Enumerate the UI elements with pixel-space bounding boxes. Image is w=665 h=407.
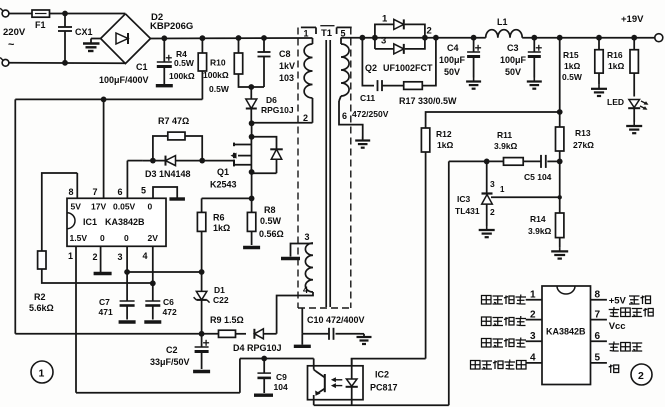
svg-text:2: 2 <box>427 26 432 37</box>
transformer T1 core <box>325 40 327 307</box>
svg-text:C1: C1 <box>136 62 148 72</box>
pinout pin 4 stub <box>526 362 542 364</box>
svg-text:8: 8 <box>595 290 601 301</box>
node C8 top <box>261 35 267 41</box>
node TL431 top junction <box>484 159 490 165</box>
svg-text:C2: C2 <box>166 345 178 355</box>
resistor R9 1.5 <box>219 330 236 337</box>
svg-text:IC3: IC3 <box>457 194 471 204</box>
svg-text:1kΩ: 1kΩ <box>437 140 453 150</box>
node R4 top <box>200 35 206 41</box>
transistor inside PC817 <box>313 359 315 370</box>
label pin6 output terminal (Chinese) <box>609 342 620 352</box>
svg-text:3: 3 <box>530 331 536 342</box>
ground bar at C2 <box>193 370 210 373</box>
svg-text:1: 1 <box>530 290 536 301</box>
node Vcc pin7 junction <box>101 97 107 103</box>
node R10 top <box>236 35 242 41</box>
node Q1 drain <box>249 120 255 126</box>
ground at secondary pin 6 <box>362 137 364 141</box>
diode Q2 upper (pin 1) <box>375 24 394 37</box>
pinout pin 3 stub <box>526 340 542 342</box>
svg-text:0.5W: 0.5W <box>174 58 195 68</box>
ground bar at C7 <box>119 320 136 323</box>
pin 4 wire and number <box>152 246 154 283</box>
svg-text:C9: C9 <box>276 372 287 382</box>
svg-text:6: 6 <box>342 111 347 121</box>
svg-text:100μF: 100μF <box>439 55 466 65</box>
transformer T1 bracket pin 5 <box>337 26 352 28</box>
svg-text:0.5W: 0.5W <box>209 84 230 94</box>
node C3 junction <box>531 35 537 41</box>
wire rectifier to L1 <box>436 37 486 39</box>
pinout pin 7 stub <box>591 319 607 321</box>
capacitor C7 471 filter <box>126 272 128 301</box>
resistor R13 27k <box>556 127 564 151</box>
svg-text:2: 2 <box>303 113 308 123</box>
pin 2 wire and number <box>100 246 102 272</box>
svg-text:R8: R8 <box>264 205 276 215</box>
svg-text:K2543: K2543 <box>210 180 237 190</box>
wire AC bottom <box>9 62 125 64</box>
svg-text:R13: R13 <box>575 128 591 138</box>
svg-text:R17 330/0.5W: R17 330/0.5W <box>399 96 457 106</box>
svg-text:3.9kΩ: 3.9kΩ <box>494 141 518 151</box>
wire source node to R6 <box>202 197 252 199</box>
svg-text:C4: C4 <box>447 43 459 53</box>
svg-text:R14: R14 <box>530 214 546 224</box>
wire bottom secondary rail <box>314 404 449 406</box>
svg-text:5: 5 <box>141 186 146 196</box>
ground bar at pin 2 <box>94 272 112 275</box>
op-amp KA3842B pinout diagram <box>542 286 591 385</box>
node Q2 output <box>422 35 428 41</box>
svg-text:3: 3 <box>118 252 123 262</box>
svg-text:R11: R11 <box>497 130 512 140</box>
wire pin1 comp bottom <box>76 392 240 394</box>
svg-text:Q2: Q2 <box>365 63 377 73</box>
node R15 top <box>596 35 602 41</box>
svg-text:472: 472 <box>163 307 177 317</box>
svg-text:0: 0 <box>148 202 153 212</box>
svg-text:4: 4 <box>530 353 536 364</box>
svg-text:2: 2 <box>490 207 495 217</box>
winding secondary 5-6 <box>340 38 342 45</box>
svg-text:50V: 50V <box>505 67 521 77</box>
svg-text:1: 1 <box>39 368 45 380</box>
svg-text:KA3842B: KA3842B <box>546 327 586 337</box>
svg-text:1: 1 <box>68 251 73 261</box>
svg-text:+5V: +5V <box>609 296 627 307</box>
svg-text:L1: L1 <box>497 17 508 27</box>
node pin3 junction <box>124 269 130 275</box>
svg-text:4: 4 <box>143 251 148 261</box>
label pin1 output compensation (Chinese) <box>482 296 492 305</box>
resistor R14 3.9k <box>556 213 564 238</box>
svg-text:104: 104 <box>274 382 288 392</box>
transistor Q1 K2543 MOSFET <box>233 143 235 147</box>
ground at LED <box>633 108 635 122</box>
LED inside PC817 <box>351 359 353 380</box>
wire secondary pin5 to rectifier <box>341 37 436 39</box>
ground bar at C6 <box>144 320 161 323</box>
node C2/D1 junction <box>199 331 205 337</box>
node AC terminal top <box>2 10 9 17</box>
svg-text:R6: R6 <box>213 213 225 223</box>
ground bar at C9 <box>254 394 273 397</box>
diode D1 C22 zener <box>201 272 203 291</box>
capacitor C8 1kV 103 <box>263 38 265 52</box>
bridge rectifier D2 <box>101 14 151 64</box>
svg-text:7: 7 <box>93 187 98 197</box>
capacitor C1 100uF/400V <box>163 38 165 62</box>
svg-text:0.56Ω: 0.56Ω <box>259 229 284 239</box>
node R13 branch top <box>557 35 563 41</box>
svg-text:R15: R15 <box>563 50 579 60</box>
svg-text:3: 3 <box>305 232 310 242</box>
ground at bridge left vertex <box>91 38 101 40</box>
node C9 junction <box>261 356 267 362</box>
svg-text:C10 472/400V: C10 472/400V <box>307 315 365 325</box>
svg-text:D4 RPG10J: D4 RPG10J <box>233 343 282 353</box>
svg-text:D3 1N4148: D3 1N4148 <box>145 169 191 179</box>
svg-text:2: 2 <box>638 370 644 382</box>
transformer T1 dashed box left <box>297 28 299 309</box>
diode D3 1N4148 <box>127 160 142 162</box>
wire primary pin2 to drain <box>252 122 313 124</box>
pinout pin 5 stub <box>591 362 607 364</box>
wire R12 to opto LED anode <box>351 358 426 360</box>
node C4 junction <box>471 35 477 41</box>
wire opto emitter to bottom rail <box>313 400 315 406</box>
capacitor CX1 <box>64 14 66 28</box>
svg-text:2: 2 <box>93 252 98 262</box>
ground at C10 <box>360 333 364 335</box>
node Q2 input junction 2 <box>372 35 378 41</box>
node Q1 source <box>249 169 255 175</box>
node C1 junction <box>161 35 167 41</box>
svg-text:LED: LED <box>607 97 624 107</box>
capacitor C9 104 <box>263 359 265 374</box>
label pin5 ground (Chinese) <box>609 365 619 374</box>
wire comp riser <box>239 359 241 393</box>
svg-text:0: 0 <box>124 233 129 243</box>
wire Vcc rail down left side <box>14 99 16 333</box>
capacitor C4 100uF 50V <box>473 38 475 52</box>
svg-text:T1: T1 <box>321 28 333 39</box>
label pin4 timing element (Chinese) <box>471 361 481 370</box>
svg-text:0: 0 <box>100 233 105 243</box>
svg-text:Q1: Q1 <box>217 167 229 177</box>
resistor R6 1k <box>201 198 203 212</box>
node D6 top junction <box>248 84 254 90</box>
svg-text:103: 103 <box>279 73 294 83</box>
node CX1 top junction <box>62 11 68 17</box>
svg-text:7: 7 <box>595 310 601 321</box>
node circled 1 <box>31 361 53 383</box>
capacitor C5 104 <box>540 155 542 168</box>
resistor R17 330/0.5W <box>404 82 423 90</box>
wire TL431 node down to bottom rail <box>448 161 450 405</box>
diode D6 RPG10J <box>250 87 252 99</box>
ground at R14 <box>559 247 561 251</box>
svg-text:C11: C11 <box>360 93 375 103</box>
svg-text:1: 1 <box>500 185 505 194</box>
wire R12 top <box>426 112 560 128</box>
wire opto LED cathode <box>351 400 353 406</box>
svg-text:50V: 50V <box>444 67 460 77</box>
node CX1 bottom junction <box>62 60 68 66</box>
resistor R11 3.9k <box>504 158 524 166</box>
svg-text:17V: 17V <box>91 202 106 212</box>
pin 5 wire and number <box>153 187 177 198</box>
svg-text:8: 8 <box>69 187 74 197</box>
svg-text:33μF/50V: 33μF/50V <box>150 357 190 367</box>
wire gate lead <box>202 160 234 162</box>
svg-text:1.5V: 1.5V <box>70 233 88 243</box>
node circled 2 <box>631 364 652 385</box>
pin 1 wire and number <box>75 246 77 392</box>
svg-text:RPG10J: RPG10J <box>261 105 294 115</box>
svg-text:R16: R16 <box>607 50 623 60</box>
output terminal +19V <box>655 34 663 42</box>
ground at C4 <box>473 78 475 82</box>
svg-text:0.5W: 0.5W <box>562 72 583 82</box>
wire L1 to output <box>522 37 655 39</box>
pin 3 wire and number <box>126 246 128 272</box>
svg-text:1kΩ: 1kΩ <box>608 61 624 71</box>
svg-text:6: 6 <box>118 187 123 197</box>
svg-text:C22: C22 <box>213 295 229 305</box>
resistor R16 1k <box>633 38 635 50</box>
svg-text:F1: F1 <box>35 20 46 30</box>
diode D4 RPG10J <box>236 333 247 335</box>
pinout pin 1 stub <box>526 299 542 301</box>
resistor R4 100k 0.5W <box>201 38 203 53</box>
ground bar at pin 5 <box>169 197 185 200</box>
resistor R2 5.6k <box>38 251 46 269</box>
capacitor C6 472 timing <box>152 283 154 301</box>
op-amp IC1 KA3842B controller <box>67 198 166 246</box>
node R16 top <box>631 35 637 41</box>
resistor R12 1k <box>421 128 429 152</box>
svg-text:D6: D6 <box>266 95 277 105</box>
op-amp IC2 PC817 optocoupler box <box>308 366 364 400</box>
svg-text:0.5W: 0.5W <box>260 216 282 226</box>
ground at TL431 <box>486 226 488 230</box>
wire compensation line <box>449 160 504 162</box>
svg-text:R10: R10 <box>210 58 226 68</box>
svg-text:~: ~ <box>8 39 15 51</box>
wire aux pin4 to D4 <box>277 292 313 334</box>
wire IC1 pin7 vertical <box>103 99 105 198</box>
svg-text:471: 471 <box>99 307 113 317</box>
resistor R10 100k 0.5W <box>238 38 240 53</box>
resistor R7 47 <box>153 136 168 161</box>
svg-text:IC1: IC1 <box>83 217 97 227</box>
wire Vcc rail horizontal <box>15 98 202 100</box>
resistor R8 0.56 0.5W <box>251 198 253 212</box>
wire bridge output to transformer (+310V rail) <box>151 37 313 40</box>
svg-text:1kV: 1kV <box>279 61 295 71</box>
label pin2 voltage feedback (Chinese) <box>482 317 492 326</box>
wire fuse to bridge top <box>50 13 126 15</box>
ground bar at R8 <box>243 246 260 249</box>
pinout pin 6 stub <box>591 340 607 342</box>
pin 8 wire and number <box>76 173 78 198</box>
svg-text:2V: 2V <box>148 233 159 243</box>
svg-text:C6: C6 <box>163 297 174 307</box>
svg-text:5V: 5V <box>71 202 82 212</box>
svg-text:R2: R2 <box>34 292 46 302</box>
svg-text:C7: C7 <box>99 297 110 307</box>
LED indicator <box>629 100 640 108</box>
wire comp to opto collector <box>240 358 314 360</box>
svg-text:1: 1 <box>304 29 309 39</box>
svg-text:1: 1 <box>382 14 388 25</box>
svg-text:KA3842B: KA3842B <box>105 217 145 227</box>
winding auxiliary 3-4 <box>305 243 313 292</box>
svg-text:6: 6 <box>595 331 601 342</box>
svg-text:1kΩ: 1kΩ <box>564 61 580 71</box>
svg-text:1kΩ: 1kΩ <box>213 223 230 233</box>
label pin8 voltage output line2 (Chinese) <box>609 307 620 317</box>
wire R13 branch vertical <box>559 38 561 127</box>
svg-text:KBP206G: KBP206G <box>150 21 193 32</box>
arrows light transfer <box>333 379 342 381</box>
svg-text:100kΩ: 100kΩ <box>203 70 229 80</box>
transformer T1 dashed box right <box>350 28 352 309</box>
wire R11 to C5 <box>523 160 541 162</box>
node AC terminal bottom <box>2 59 9 66</box>
ground at C3 <box>533 78 535 82</box>
node pin4 CT junction <box>150 280 156 286</box>
svg-text:R12: R12 <box>436 129 452 139</box>
svg-text:R9 1.5Ω: R9 1.5Ω <box>210 315 244 325</box>
diode Q1 body diode <box>252 137 277 149</box>
svg-text:27kΩ: 27kΩ <box>573 140 594 150</box>
pinout pin 2 stub <box>526 319 542 321</box>
wire Vcc bottom rail <box>15 333 218 335</box>
svg-text:3: 3 <box>490 179 495 189</box>
svg-text:0.05V: 0.05V <box>113 202 136 212</box>
transformer T1 bracket pin 1 <box>301 26 316 28</box>
svg-text:IC2: IC2 <box>375 370 389 380</box>
node R6 bottom junction <box>199 269 205 275</box>
svg-text:5.6kΩ: 5.6kΩ <box>29 303 54 313</box>
winding primary 1-2 <box>312 38 314 44</box>
svg-text:C3: C3 <box>507 43 519 53</box>
transformer T1 label dash <box>320 25 334 27</box>
capacitor C10 472/400V <box>302 333 329 335</box>
fuse F1 <box>32 10 50 17</box>
inductor L1 <box>486 30 523 38</box>
node R12 branch junction <box>557 109 563 115</box>
pin 6 wire and number <box>126 161 128 199</box>
wire aux pin3 to ground bar <box>291 244 314 257</box>
svg-text:220V: 220V <box>3 27 26 38</box>
ground at R15 <box>598 85 600 89</box>
wire shield line <box>301 308 303 334</box>
wire AC top to fuse <box>9 13 32 15</box>
diode Q2 lower (pin 3) <box>375 48 394 50</box>
svg-text:C8: C8 <box>279 49 291 59</box>
svg-text:D1: D1 <box>214 285 225 295</box>
node Q2 input junction 1 <box>360 35 366 41</box>
svg-text:100kΩ: 100kΩ <box>169 71 195 81</box>
svg-text:5: 5 <box>595 353 601 364</box>
wire pin8 to R2 top <box>42 173 78 251</box>
svg-text:CX1: CX1 <box>75 27 93 37</box>
svg-text:3.9kΩ: 3.9kΩ <box>528 226 552 236</box>
wire pin3 current sense <box>127 271 202 273</box>
label pin3 overcurrent detect (Chinese) <box>482 339 492 348</box>
svg-text:UF1002FCT: UF1002FCT <box>383 63 433 73</box>
pinout pin 8 stub <box>591 299 607 301</box>
node feedback divider junction <box>557 159 563 165</box>
svg-text:Vcc: Vcc <box>609 321 626 332</box>
capacitor C11 472/250V snubber <box>362 38 374 86</box>
wire TL431 ref to divider <box>491 196 560 198</box>
svg-text:100μF: 100μF <box>500 55 527 65</box>
svg-text:2: 2 <box>530 310 536 321</box>
svg-text:100μF/400V: 100μF/400V <box>99 75 149 85</box>
svg-text:C5 104: C5 104 <box>524 172 552 182</box>
node R6/R8 source junction <box>249 196 255 202</box>
capacitor C2 33uF/50V <box>201 334 203 347</box>
svg-text:PC817: PC817 <box>370 383 398 393</box>
ground bar at shield <box>301 334 303 345</box>
transformer T1 dashed box bottom <box>298 307 351 309</box>
svg-text:3: 3 <box>381 36 386 47</box>
resistor R15 1k 0.5W <box>598 38 600 50</box>
capacitor C3 100uF 50V <box>533 38 535 52</box>
shunt regulator IC3 TL431 <box>486 161 488 193</box>
svg-text:R7 47Ω: R7 47Ω <box>158 116 189 126</box>
svg-text:472/250V: 472/250V <box>352 109 389 119</box>
svg-text:TL431: TL431 <box>455 206 480 216</box>
svg-text:+19V: +19V <box>621 14 644 25</box>
svg-text:4: 4 <box>303 285 308 295</box>
